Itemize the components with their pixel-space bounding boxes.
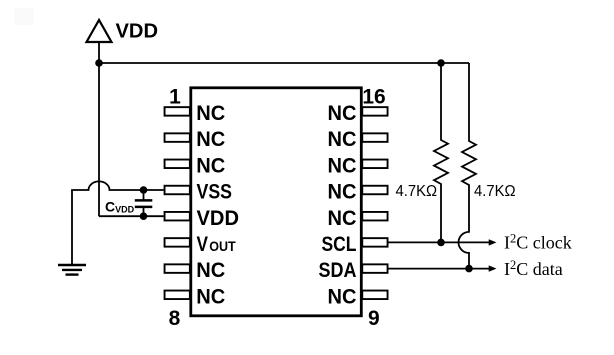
svg-text:4.7KΩ: 4.7KΩ xyxy=(474,183,516,200)
svg-text:NC: NC xyxy=(328,284,357,308)
pin 6 box xyxy=(165,238,190,247)
wire: VSS net from pin4 left, hop over VDD rail, to ground xyxy=(72,181,164,265)
capacitor C_VDD xyxy=(143,190,145,200)
svg-text:NC: NC xyxy=(328,206,357,230)
svg-text:VDD: VDD xyxy=(116,20,159,42)
svg-text:NC: NC xyxy=(196,258,225,282)
power symbol VDD (triangle) xyxy=(87,20,112,42)
pin 7 box xyxy=(165,264,190,273)
pin 4 box (VSS) xyxy=(165,186,190,195)
arrowhead SCL xyxy=(489,239,497,245)
pin 15 box xyxy=(362,133,387,142)
svg-text:V: V xyxy=(197,232,209,256)
pin 11 box (SCL) xyxy=(362,238,387,247)
svg-text:VSS: VSS xyxy=(197,180,233,204)
IC body U1 xyxy=(191,88,361,316)
arrowhead SDA xyxy=(489,265,497,271)
pin 12 box xyxy=(362,212,387,221)
wire: VDD vertical rail from triangle down to VDD-pin corner xyxy=(98,42,100,216)
svg-text:NC: NC xyxy=(196,284,225,308)
svg-text:1: 1 xyxy=(169,86,181,109)
svg-text:NC: NC xyxy=(328,127,357,151)
pin 14 box xyxy=(362,160,387,169)
svg-text:VDD: VDD xyxy=(197,206,240,230)
junction dot cap top / VSS wire xyxy=(140,186,148,194)
svg-text:SCL: SCL xyxy=(322,232,357,256)
svg-text:OUT: OUT xyxy=(209,239,236,254)
pin 8 box xyxy=(165,291,190,300)
wire: SDA net from pin to arrow xyxy=(389,268,491,270)
pin 2 box xyxy=(165,133,190,142)
wire: SCL net from pin to arrow xyxy=(389,241,491,243)
svg-text:NC: NC xyxy=(196,127,225,151)
svg-text:9: 9 xyxy=(368,307,380,330)
svg-text:4.7KΩ: 4.7KΩ xyxy=(396,183,438,200)
junction dot cap bottom / VDD wire xyxy=(140,212,148,220)
svg-text:8: 8 xyxy=(169,307,181,330)
wire: VDD net corner to pin5 xyxy=(99,215,164,217)
pin 10 box (SDA) xyxy=(362,264,387,273)
pin 9 box xyxy=(362,291,387,300)
svg-text:NC: NC xyxy=(328,153,357,177)
pin 13 box xyxy=(362,186,387,195)
junction dot at R1 top xyxy=(437,59,445,67)
wire: top horizontal VDD rail to resistors xyxy=(99,62,469,64)
pin 1 box xyxy=(165,107,190,116)
svg-text:NC: NC xyxy=(328,180,357,204)
ground xyxy=(58,264,86,266)
resistor R2 4.7KΩ (pull-up SDA) with wire hop over SCL xyxy=(459,63,477,269)
svg-text:SDA: SDA xyxy=(319,258,357,282)
resistor R1 4.7KΩ (pull-up SCL) xyxy=(434,63,448,242)
junction dot R2/SDA xyxy=(465,265,473,273)
svg-text:NC: NC xyxy=(196,153,225,177)
svg-text:16: 16 xyxy=(362,86,385,109)
junction dot R1/SCL xyxy=(437,239,445,247)
svg-text:NC: NC xyxy=(328,101,357,125)
pin 5 box (VDD) xyxy=(165,212,190,221)
pin 3 box xyxy=(165,160,190,169)
junction dot at VDD rail / top horizontal wire xyxy=(95,59,103,67)
svg-text:NC: NC xyxy=(196,101,225,125)
pin 16 box xyxy=(362,107,387,116)
